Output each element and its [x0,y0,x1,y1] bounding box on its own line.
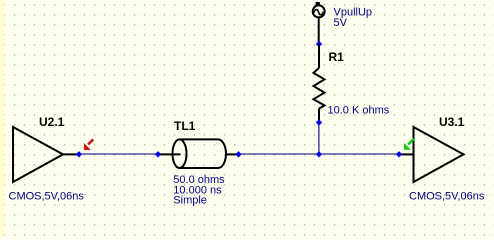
label CMOS,5V,06ns for U2.1 [9,191,85,203]
svg-text:10.0 K ohms: 10.0 K ohms [328,104,390,116]
voltage source VpullUp [313,2,325,44]
pin U3.1 input node [396,151,402,157]
pin node VpullUp to R1 [316,41,322,47]
label Simple [173,195,207,207]
label U2.1 [39,115,65,129]
svg-text:R1: R1 [329,50,345,64]
label TL1 [174,119,196,133]
resistor R1 [314,44,325,123]
svg-text:U3.1: U3.1 [439,115,465,129]
wire net U2.1 to TL1 [79,153,158,155]
wire net TL1 to junction [239,153,320,155]
pin TL1 right [235,151,241,157]
label U3.1 [439,115,465,129]
junction node [316,151,322,157]
svg-text:TL1: TL1 [174,119,196,133]
buffer U3.1 [399,127,464,182]
red probe arrow at U2.1 [84,139,93,150]
svg-text:U2.1: U2.1 [39,115,65,129]
pin TL1 left [155,151,161,157]
buffer U2.1 [13,127,79,182]
label R1 [329,50,345,64]
svg-text:5V: 5V [334,17,348,29]
label 10.0 K ohms [328,104,390,116]
wire net junction to U3.1 [319,153,399,155]
pin R1 bottom node [316,119,322,125]
label VpullUp [334,6,373,18]
label 5V [334,17,348,29]
transmission line TL1 [158,139,239,168]
pin U2.1 output node [76,151,82,157]
label 50.0 ohms [173,174,225,186]
svg-text:CMOS,5V,06ns: CMOS,5V,06ns [409,190,485,202]
label CMOS,5V,06ns for U3.1 [409,190,485,202]
svg-text:Simple: Simple [173,195,207,207]
svg-text:CMOS,5V,06ns: CMOS,5V,06ns [9,191,85,203]
green probe arrow at U3.1 [404,139,414,150]
label 10.000 ns [173,184,222,196]
wire net R1 to junction [318,123,320,155]
